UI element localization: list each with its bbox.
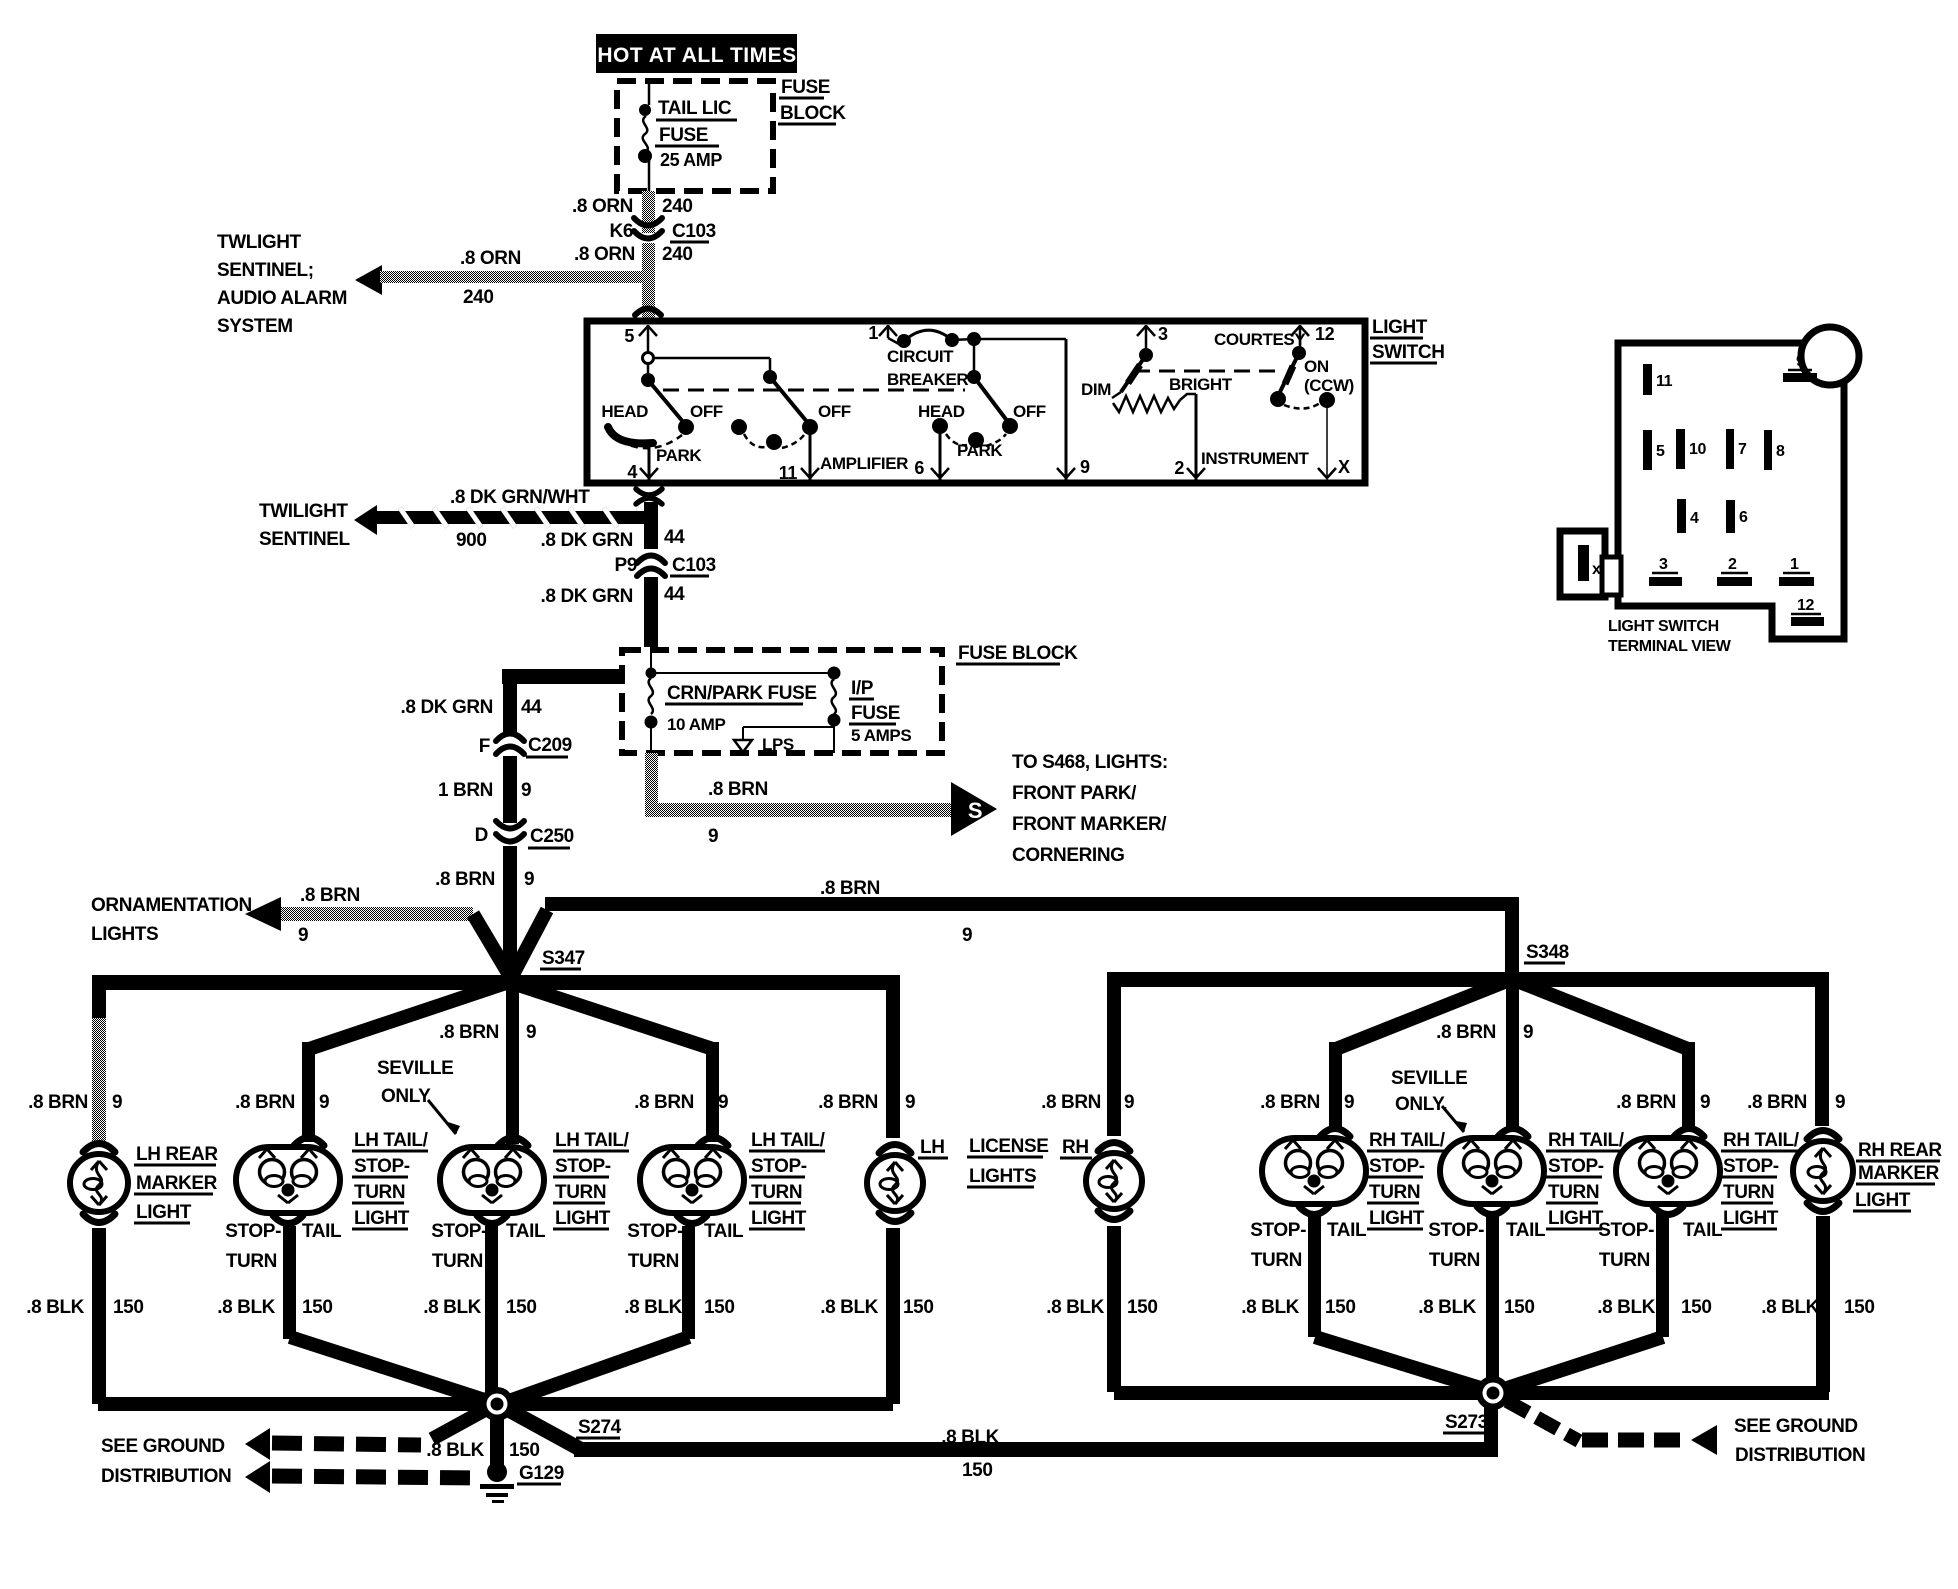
svg-text:6: 6 bbox=[914, 458, 924, 478]
svg-text:10 AMP: 10 AMP bbox=[667, 715, 725, 734]
svg-text:9: 9 bbox=[1344, 1092, 1354, 1113]
svg-text:TURN: TURN bbox=[628, 1251, 679, 1272]
HOT AT ALL TIMES box bbox=[596, 34, 797, 73]
svg-text:2: 2 bbox=[1174, 458, 1184, 478]
connector P9 C103 bbox=[615, 555, 716, 576]
svg-text:SEE GROUND: SEE GROUND bbox=[1734, 1416, 1858, 1437]
svg-text:C209: C209 bbox=[528, 735, 572, 756]
connector into light switch terminal 5 bbox=[635, 309, 661, 316]
wire seville RH down bbox=[1486, 1214, 1499, 1390]
svg-text:.8 BRN: .8 BRN bbox=[1041, 1092, 1101, 1113]
svg-text:TURN: TURN bbox=[1723, 1182, 1774, 1203]
svg-text:.8 BLK: .8 BLK bbox=[1761, 1297, 1819, 1318]
label RH TAIL/STOP-TURN LIGHT 3 bbox=[1721, 1130, 1801, 1229]
svg-text:FUSE: FUSE bbox=[781, 77, 830, 98]
svg-text:BLOCK: BLOCK bbox=[780, 103, 846, 124]
connector D C250 bbox=[475, 821, 574, 848]
terminal 2 bar bbox=[1717, 556, 1752, 586]
label FUSE BLOCK bbox=[956, 643, 1078, 664]
svg-text:TAIL: TAIL bbox=[302, 1221, 342, 1242]
wire LH rear marker down bbox=[92, 1228, 106, 1404]
svg-text:9: 9 bbox=[521, 780, 531, 801]
label TAIL LIC FUSE 25 AMP bbox=[655, 98, 737, 170]
svg-text:S347: S347 bbox=[542, 948, 585, 969]
splice S347 label bbox=[540, 948, 585, 969]
terminal 11 bar bbox=[1643, 364, 1673, 395]
svg-text:LIGHT: LIGHT bbox=[354, 1208, 410, 1229]
svg-text:.8 BRN: .8 BRN bbox=[300, 885, 360, 906]
svg-text:.8 BLK: .8 BLK bbox=[217, 1297, 275, 1318]
svg-text:D: D bbox=[475, 825, 488, 846]
svg-text:FUSE: FUSE bbox=[851, 703, 900, 724]
light switch terminal view outline bbox=[1618, 327, 1859, 639]
svg-text:LH TAIL/: LH TAIL/ bbox=[555, 1130, 630, 1151]
svg-text:1 BRN: 1 BRN bbox=[438, 780, 493, 801]
svg-text:.8 DK GRN/WHT: .8 DK GRN/WHT bbox=[450, 487, 590, 508]
svg-text:LH TAIL/: LH TAIL/ bbox=[354, 1130, 429, 1151]
svg-text:.8 BRN: .8 BRN bbox=[1260, 1092, 1320, 1113]
svg-text:150: 150 bbox=[506, 1297, 537, 1318]
svg-text:TERMINAL VIEW: TERMINAL VIEW bbox=[1608, 638, 1732, 655]
label LH TAIL/STOP-TURN LIGHT 3 bbox=[749, 1130, 826, 1229]
svg-text:BRIGHT: BRIGHT bbox=[1169, 375, 1233, 394]
svg-text:DISTRIBUTION: DISTRIBUTION bbox=[1735, 1445, 1865, 1466]
label .8 BLK 150 row LH bbox=[26, 1297, 143, 1318]
wire in fuse block bbox=[648, 84, 651, 191]
svg-text:5: 5 bbox=[624, 326, 634, 346]
svg-text:G129: G129 bbox=[519, 1463, 564, 1484]
terminal 10 bar bbox=[1676, 429, 1706, 469]
fuse element I/P bbox=[828, 667, 912, 754]
svg-text:X: X bbox=[1338, 457, 1350, 477]
svg-text:C250: C250 bbox=[530, 826, 574, 847]
twilight sentinel / audio alarm arrow (stippled) bbox=[355, 248, 648, 308]
svg-text:SEE GROUND: SEE GROUND bbox=[101, 1436, 225, 1457]
svg-text:.8 DK GRN: .8 DK GRN bbox=[541, 586, 633, 607]
svg-text:TAIL: TAIL bbox=[1506, 1220, 1546, 1241]
svg-text:LICENSE: LICENSE bbox=[969, 1136, 1049, 1157]
wire LH license down bbox=[886, 1228, 900, 1404]
RH tail/stop-turn bulb 3 bbox=[1616, 1129, 1720, 1215]
label .8 ORN 240 bbox=[572, 196, 692, 217]
svg-text:HEAD: HEAD bbox=[601, 402, 648, 421]
fuse block (TAIL LIC fuse) dashed box bbox=[617, 81, 773, 191]
label LICENSE LIGHTS bbox=[967, 1136, 1049, 1187]
svg-text:12: 12 bbox=[1797, 597, 1814, 614]
svg-text:LH: LH bbox=[920, 1137, 945, 1158]
svg-text:TURN: TURN bbox=[1548, 1182, 1599, 1203]
svg-text:TURN: TURN bbox=[555, 1182, 606, 1203]
wire to seville bulb RH bbox=[1436, 982, 1533, 1128]
label STOP-TURN TAIL bbox=[1598, 1220, 1723, 1271]
svg-text:9: 9 bbox=[524, 869, 534, 890]
label SEE GROUND DISTRIBUTION right bbox=[1734, 1416, 1865, 1466]
svg-text:9: 9 bbox=[112, 1092, 122, 1113]
connector F C209 bbox=[479, 734, 572, 758]
svg-text:150: 150 bbox=[1325, 1297, 1356, 1318]
svg-text:HOT AT ALL TIMES: HOT AT ALL TIMES bbox=[597, 44, 796, 67]
label .8 BRN 9 bbox=[235, 1092, 329, 1113]
wire .8 DK GRN 44 bbox=[541, 577, 686, 647]
LH tail/stop-turn bulb 1 bbox=[236, 1138, 340, 1224]
svg-text:AUDIO ALARM: AUDIO ALARM bbox=[217, 288, 347, 309]
svg-text:11: 11 bbox=[779, 463, 798, 483]
svg-text:S: S bbox=[968, 798, 982, 823]
RH tail/stop-turn bulb 1 bbox=[1262, 1129, 1366, 1215]
bus wire bottom right bbox=[1114, 1386, 1829, 1400]
LH license bulb bbox=[867, 1145, 923, 1222]
see ground distribution arrow right bbox=[1507, 1401, 1717, 1455]
label .8 BRN 9 bbox=[818, 1092, 915, 1113]
svg-text:OFF: OFF bbox=[1013, 402, 1046, 421]
terminal 7 bar bbox=[1726, 429, 1747, 469]
head/off/park switch sw1 bbox=[601, 353, 770, 466]
svg-text:9: 9 bbox=[1700, 1092, 1710, 1113]
svg-text:9: 9 bbox=[1080, 457, 1090, 477]
label LH bbox=[918, 1137, 948, 1158]
svg-text:240: 240 bbox=[662, 196, 693, 217]
svg-text:2: 2 bbox=[1728, 556, 1737, 573]
svg-text:LH REAR: LH REAR bbox=[136, 1144, 218, 1165]
connector at terminal 4 bbox=[636, 489, 662, 504]
svg-text:RH TAIL/: RH TAIL/ bbox=[1369, 1130, 1446, 1151]
svg-text:.8 BRN: .8 BRN bbox=[708, 779, 768, 800]
label STOP-TURN TAIL bbox=[1428, 1220, 1546, 1271]
svg-text:7: 7 bbox=[1738, 441, 1747, 458]
svg-text:LIGHT: LIGHT bbox=[1369, 1208, 1425, 1229]
svg-text:9: 9 bbox=[1124, 1092, 1134, 1113]
wire RH rear marker down bbox=[1816, 1216, 1830, 1392]
svg-text:LIGHT: LIGHT bbox=[1723, 1208, 1779, 1229]
courtesy switch bbox=[1214, 330, 1354, 409]
wire thick from fuse block to left branch bbox=[401, 669, 622, 732]
svg-text:150: 150 bbox=[1127, 1297, 1158, 1318]
svg-text:LIGHT SWITCH: LIGHT SWITCH bbox=[1608, 618, 1719, 635]
light switch box bbox=[587, 321, 1365, 483]
svg-text:9: 9 bbox=[319, 1092, 329, 1113]
svg-text:.8 BLK: .8 BLK bbox=[624, 1297, 682, 1318]
terminal X bbox=[1318, 404, 1350, 480]
svg-text:.8 BRN: .8 BRN bbox=[1747, 1092, 1807, 1113]
svg-text:240: 240 bbox=[662, 244, 693, 265]
seville only callout RH bbox=[1391, 1068, 1467, 1132]
svg-text:TURN: TURN bbox=[432, 1251, 483, 1272]
svg-text:AMPLIFIER: AMPLIFIER bbox=[820, 454, 908, 473]
svg-text:STOP-: STOP- bbox=[555, 1156, 611, 1177]
label LH TAIL/STOP-TURN LIGHT 2 bbox=[553, 1130, 630, 1229]
wire 1 BRN 9 bbox=[438, 756, 531, 823]
bus wire left group top bbox=[92, 975, 900, 1138]
svg-text:OFF: OFF bbox=[818, 402, 851, 421]
svg-text:STOP-: STOP- bbox=[1369, 1156, 1425, 1177]
LH tail/stop-turn bulb 2 (seville) bbox=[440, 1138, 544, 1224]
svg-text:CIRCUIT: CIRCUIT bbox=[887, 347, 954, 366]
wire to seville bulb LH bbox=[439, 982, 536, 1144]
label TWLIGHT SENTINEL AUDIO ALARM SYSTEM bbox=[217, 232, 347, 337]
label TWILIGHT SENTINEL bbox=[259, 501, 351, 550]
svg-text:MARKER: MARKER bbox=[136, 1173, 218, 1194]
svg-text:10: 10 bbox=[1689, 441, 1706, 458]
terminal 9 bbox=[1057, 339, 1090, 480]
terminal 8 bar bbox=[1764, 430, 1785, 470]
svg-text:.8 DK GRN: .8 DK GRN bbox=[541, 530, 633, 551]
terminal dot bbox=[639, 104, 651, 116]
terminal view X housing bbox=[1560, 531, 1621, 597]
svg-text:TAIL LIC: TAIL LIC bbox=[658, 98, 732, 119]
wire .8 BLK 150 long S274 to S273 bbox=[505, 1398, 1498, 1481]
svg-text:FRONT PARK/: FRONT PARK/ bbox=[1012, 783, 1137, 804]
svg-text:LIGHTS: LIGHTS bbox=[969, 1166, 1036, 1187]
wire diagonal to RH tail bulb 3 bbox=[1512, 979, 1695, 1130]
fuse block 2 dashed box bbox=[622, 650, 942, 753]
ground wire stub bbox=[426, 1418, 539, 1466]
svg-text:.8 BRN: .8 BRN bbox=[818, 1092, 878, 1113]
svg-text:25 AMP: 25 AMP bbox=[660, 150, 722, 170]
dim/bright rheostat bbox=[1081, 348, 1309, 468]
svg-text:TURN: TURN bbox=[226, 1251, 277, 1272]
svg-text:STOP-: STOP- bbox=[225, 1221, 281, 1242]
svg-text:OFF: OFF bbox=[690, 402, 723, 421]
label LIGHT SWITCH TERMINAL VIEW bbox=[1608, 618, 1732, 655]
bus wire right group top bbox=[1107, 972, 1829, 1136]
svg-text:4: 4 bbox=[1690, 510, 1699, 527]
svg-text:TAIL: TAIL bbox=[1683, 1220, 1723, 1241]
svg-text:TWILIGHT: TWILIGHT bbox=[259, 501, 348, 522]
RH rear marker light bulb bbox=[1793, 1131, 1853, 1212]
svg-text:LIGHT: LIGHT bbox=[136, 1202, 192, 1223]
LH tail/stop-turn bulb 3 bbox=[640, 1138, 744, 1224]
svg-text:1: 1 bbox=[1790, 556, 1799, 573]
svg-text:K6: K6 bbox=[610, 221, 634, 242]
mechanical link dashed bbox=[1134, 370, 1282, 373]
wire .8 ORN 240 (stippled) bbox=[642, 191, 655, 233]
svg-text:TURN: TURN bbox=[1599, 1250, 1650, 1271]
svg-text:STOP-: STOP- bbox=[1250, 1220, 1306, 1241]
svg-text:3: 3 bbox=[1158, 324, 1168, 344]
wire LH bulb3 down + diagonal bbox=[506, 1226, 695, 1402]
wire .8 ORN 240 (stippled) bbox=[642, 243, 655, 318]
label SEE GROUND DISTRIBUTION left bbox=[101, 1436, 231, 1487]
svg-text:TURN: TURN bbox=[751, 1182, 802, 1203]
svg-text:LIGHTS: LIGHTS bbox=[91, 924, 158, 945]
svg-text:FUSE BLOCK: FUSE BLOCK bbox=[958, 643, 1078, 664]
ground G129 bbox=[480, 1462, 564, 1503]
terminal 2 bbox=[1174, 394, 1205, 480]
svg-text:.8 BLK: .8 BLK bbox=[941, 1427, 999, 1448]
label .8 BRN 9 bbox=[1260, 1092, 1354, 1113]
svg-text:TURN: TURN bbox=[1369, 1182, 1420, 1203]
label TO S468 LIGHTS FRONT PARK FRONT MARKER CORNERING bbox=[1012, 752, 1168, 866]
svg-text:.8 BLK: .8 BLK bbox=[1418, 1297, 1476, 1318]
RH tail/stop-turn bulb 2 (seville) bbox=[1440, 1129, 1544, 1215]
svg-text:900: 900 bbox=[456, 530, 487, 551]
svg-text:LIGHT: LIGHT bbox=[751, 1208, 807, 1229]
seville only callout LH bbox=[377, 1058, 460, 1134]
svg-text:.8 BLK: .8 BLK bbox=[1241, 1297, 1299, 1318]
svg-text:P9: P9 bbox=[615, 555, 637, 576]
svg-text:.8 BRN: .8 BRN bbox=[435, 869, 495, 890]
svg-text:240: 240 bbox=[463, 287, 494, 308]
svg-text:.8 BRN: .8 BRN bbox=[1616, 1092, 1676, 1113]
terminal 9 bar bbox=[1783, 353, 1817, 382]
label .8 ORN 240 bbox=[574, 244, 692, 265]
label S273 bbox=[1443, 1412, 1488, 1433]
svg-text:LH TAIL/: LH TAIL/ bbox=[751, 1130, 826, 1151]
svg-text:9: 9 bbox=[962, 925, 972, 946]
twilight sentinel striped arrow bbox=[354, 505, 651, 535]
svg-text:3: 3 bbox=[1659, 556, 1668, 573]
svg-text:8: 8 bbox=[1776, 443, 1785, 460]
svg-text:STOP-: STOP- bbox=[627, 1221, 683, 1242]
wire diagonal to RH tail bulb 1 bbox=[1329, 979, 1512, 1130]
svg-text:150: 150 bbox=[1844, 1297, 1875, 1318]
svg-text:DISTRIBUTION: DISTRIBUTION bbox=[101, 1466, 231, 1487]
terminal 1 bar bbox=[1779, 556, 1814, 586]
svg-text:.8 DK GRN: .8 DK GRN bbox=[401, 697, 493, 718]
wire .8 BRN 9 down to S347 bbox=[435, 846, 534, 978]
svg-text:SENTINEL: SENTINEL bbox=[259, 529, 351, 550]
svg-text:6: 6 bbox=[1739, 509, 1748, 526]
svg-text:5 AMPS: 5 AMPS bbox=[851, 726, 911, 745]
label RH TAIL/STOP-TURN LIGHT 1 bbox=[1367, 1130, 1447, 1229]
see ground distribution arrow 1 bbox=[245, 1405, 494, 1460]
terminal 1 bbox=[868, 323, 897, 343]
svg-text:LIGHT: LIGHT bbox=[1855, 1190, 1911, 1211]
svg-text:SENTINEL;: SENTINEL; bbox=[217, 260, 314, 281]
svg-text:LIGHT: LIGHT bbox=[555, 1208, 611, 1229]
svg-text:150: 150 bbox=[113, 1297, 144, 1318]
svg-text:RH TAIL/: RH TAIL/ bbox=[1723, 1130, 1800, 1151]
svg-text:11: 11 bbox=[1656, 373, 1673, 390]
svg-text:STOP-: STOP- bbox=[1548, 1156, 1604, 1177]
svg-text:.8 BLK: .8 BLK bbox=[1597, 1297, 1655, 1318]
label STOP-TURN TAIL bbox=[431, 1221, 546, 1272]
wire to LH rear marker (stippled) bbox=[92, 1018, 106, 1144]
svg-text:4: 4 bbox=[627, 462, 637, 482]
svg-text:150: 150 bbox=[903, 1297, 934, 1318]
label .8 BRN 9 bbox=[1041, 1092, 1134, 1113]
svg-text:COURTESY: COURTESY bbox=[1214, 330, 1306, 349]
see ground distribution arrow 2 bbox=[245, 1461, 480, 1493]
label ORNAMENTATION LIGHTS bbox=[91, 895, 252, 945]
svg-text:.8 BLK: .8 BLK bbox=[26, 1297, 84, 1318]
svg-text:9: 9 bbox=[1796, 353, 1805, 370]
wire RH bulb3 down + diagonal bbox=[1501, 1214, 1669, 1390]
label RH REAR MARKER LIGHT bbox=[1853, 1140, 1942, 1211]
svg-text:LPS: LPS bbox=[762, 735, 794, 754]
LH rear marker light bulb bbox=[70, 1144, 128, 1223]
svg-text:(CCW): (CCW) bbox=[1304, 376, 1354, 395]
svg-text:.8 ORN: .8 ORN bbox=[572, 196, 633, 217]
svg-text:TAIL: TAIL bbox=[704, 1221, 744, 1242]
svg-text:9: 9 bbox=[298, 925, 308, 946]
svg-text:9: 9 bbox=[708, 826, 718, 847]
svg-text:.8 BLK: .8 BLK bbox=[423, 1297, 481, 1318]
connector K6 C103 bbox=[610, 218, 716, 242]
svg-text:RH REAR: RH REAR bbox=[1858, 1140, 1942, 1161]
label .8 BRN 9 bbox=[28, 1092, 122, 1113]
svg-text:TURN: TURN bbox=[1251, 1250, 1302, 1271]
svg-text:9: 9 bbox=[526, 1022, 536, 1043]
label RH TAIL/STOP-TURN LIGHT 2 bbox=[1546, 1130, 1626, 1229]
svg-text:S348: S348 bbox=[1526, 942, 1569, 963]
svg-text:STOP-: STOP- bbox=[1428, 1220, 1484, 1241]
svg-text:9: 9 bbox=[905, 1092, 915, 1113]
label LIGHT SWITCH bbox=[1370, 317, 1445, 363]
mechanical link dashed bbox=[663, 389, 965, 392]
terminal X bar bbox=[1578, 545, 1601, 581]
wire seville LH down bbox=[485, 1226, 498, 1396]
label STOP-TURN TAIL bbox=[1250, 1220, 1367, 1271]
wire LH bulb1 down + diagonal bbox=[283, 1226, 494, 1403]
svg-text:TAIL: TAIL bbox=[1327, 1220, 1367, 1241]
svg-text:CORNERING: CORNERING bbox=[1012, 845, 1125, 866]
svg-text:150: 150 bbox=[1681, 1297, 1712, 1318]
svg-text:STOP-: STOP- bbox=[431, 1221, 487, 1242]
terminal 5 bbox=[624, 325, 657, 352]
LPS contact bbox=[734, 727, 834, 754]
terminal 12 bar bbox=[1791, 597, 1824, 626]
label .8 BLK 150 row RH bbox=[1046, 1297, 1157, 1318]
svg-text:STOP-: STOP- bbox=[354, 1156, 410, 1177]
off/amplifier switch sw2 bbox=[731, 370, 908, 473]
svg-text:12: 12 bbox=[1315, 324, 1335, 344]
terminal 11 bbox=[779, 431, 819, 483]
label LH TAIL/STOP-TURN LIGHT 1 bbox=[352, 1130, 429, 1229]
svg-text:150: 150 bbox=[1504, 1297, 1535, 1318]
svg-text:150: 150 bbox=[302, 1297, 333, 1318]
fuse element TAIL LIC bbox=[643, 116, 648, 152]
terminal 6 bbox=[914, 432, 949, 480]
svg-text:TWLIGHT: TWLIGHT bbox=[217, 232, 302, 253]
svg-text:INSTRUMENT: INSTRUMENT bbox=[1201, 449, 1309, 468]
svg-text:S274: S274 bbox=[578, 1417, 622, 1438]
label .8 BRN 9 bbox=[634, 1092, 728, 1113]
svg-text:5: 5 bbox=[1656, 443, 1665, 460]
label .8 BRN 9 bbox=[1616, 1092, 1710, 1113]
svg-text:TAIL: TAIL bbox=[506, 1221, 546, 1242]
ornamentation lights arrow bbox=[245, 885, 511, 978]
svg-text:LIGHT: LIGHT bbox=[1548, 1208, 1604, 1229]
wire RH bulb1 down + diagonal bbox=[1308, 1214, 1487, 1390]
svg-text:.8 BRN: .8 BRN bbox=[1436, 1022, 1496, 1043]
svg-text:RH: RH bbox=[1062, 1137, 1089, 1158]
svg-text:TO S468, LIGHTS:: TO S468, LIGHTS: bbox=[1012, 752, 1168, 773]
label LH REAR MARKER LIGHT bbox=[134, 1144, 218, 1223]
svg-text:TURN: TURN bbox=[354, 1182, 405, 1203]
svg-text:FUSE: FUSE bbox=[659, 125, 708, 146]
splice S348 label bbox=[1524, 942, 1569, 963]
svg-text:STOP-: STOP- bbox=[1723, 1156, 1779, 1177]
svg-text:FRONT MARKER/: FRONT MARKER/ bbox=[1012, 814, 1167, 835]
wire .8 DK GRN 44 bbox=[450, 487, 685, 551]
svg-text:44: 44 bbox=[664, 527, 685, 548]
svg-text:.8 ORN: .8 ORN bbox=[574, 244, 635, 265]
label S274 bbox=[576, 1417, 622, 1438]
svg-text:9: 9 bbox=[1523, 1022, 1533, 1043]
svg-text:BREAKER: BREAKER bbox=[887, 370, 968, 389]
svg-text:STOP-: STOP- bbox=[1598, 1220, 1654, 1241]
svg-text:.8 BRN: .8 BRN bbox=[28, 1092, 88, 1113]
svg-text:PARK: PARK bbox=[656, 446, 702, 465]
svg-text:SEVILLE: SEVILLE bbox=[377, 1058, 453, 1079]
terminal 5 bar bbox=[1643, 430, 1665, 470]
wire .8 BRN to S468 (stippled) with S arrow bbox=[645, 753, 997, 847]
terminal dot bbox=[638, 149, 652, 163]
circuit breaker bbox=[887, 330, 1066, 389]
svg-text:ON: ON bbox=[1304, 357, 1329, 376]
junction dot bbox=[646, 668, 657, 679]
